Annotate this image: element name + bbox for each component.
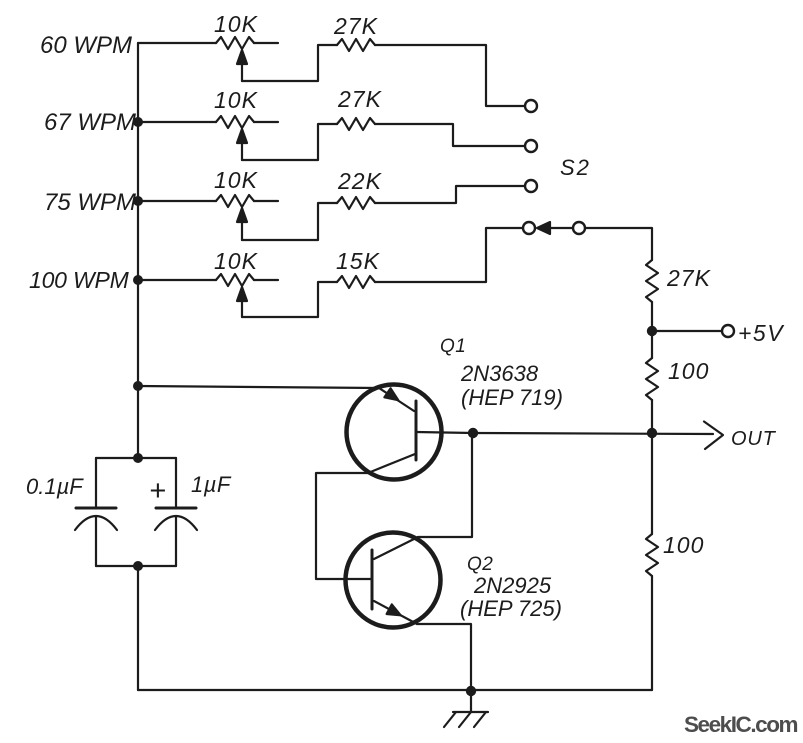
svg-text:100: 100: [663, 532, 704, 558]
switch S2 contact 4: [523, 222, 535, 234]
junction ground node: [466, 686, 476, 696]
wire +5V feed: [652, 330, 722, 332]
svg-text:60 WPM: 60 WPM: [40, 32, 132, 59]
svg-text:(HEP 725): (HEP 725): [460, 596, 562, 621]
potentiometer R1 10K body: [216, 37, 254, 49]
svg-text:10K: 10K: [214, 167, 259, 193]
wire row1 from bus: [138, 42, 216, 44]
wire capacitor top branch: [96, 457, 176, 459]
svg-text:+5V: +5V: [738, 320, 785, 346]
switch S2 wiper arm arrow: [537, 222, 550, 234]
wire wiper to rail: [585, 228, 652, 260]
wire left bus upper: [137, 43, 139, 458]
wire row3 wiper jog: [242, 203, 337, 240]
wire row2 wiper jog: [242, 124, 337, 160]
resistor 27K right body: [646, 260, 658, 302]
wire OUT line: [473, 433, 713, 434]
junction row4 bus: [133, 275, 143, 285]
resistor 100 lower body: [646, 534, 658, 576]
potentiometer R4 10K body: [216, 274, 254, 286]
wire row3 to contact: [375, 186, 525, 203]
wire capacitor bottom branch: [96, 565, 176, 567]
resistor 22K row3 body: [337, 197, 375, 209]
junction +5V node: [647, 326, 657, 336]
resistor 15K row4 body: [337, 276, 375, 288]
potentiometer R2 wiper arrow: [237, 129, 247, 143]
svg-text:S2: S2: [560, 155, 591, 180]
wire Q1 base lead: [416, 432, 473, 433]
transistor Q2: [346, 533, 441, 628]
svg-text:OUT: OUT: [731, 428, 777, 450]
wire left bus lower: [137, 566, 139, 690]
terminal +5V: [722, 325, 734, 337]
junction capacitor bottom: [133, 561, 143, 571]
resistor 27K row2 body: [337, 118, 375, 130]
svg-text:22K: 22K: [337, 168, 383, 194]
wire Q1 emitter lead: [138, 386, 379, 388]
ground: [470, 691, 472, 712]
potentiometer R3 wiper arrow: [237, 208, 247, 222]
wire row4 to contact: [375, 228, 523, 282]
resistor 100 upper body: [646, 358, 658, 400]
junction row2 bus: [133, 117, 143, 127]
wire row1 pot stub: [254, 42, 278, 44]
potentiometer R3 10K body: [216, 195, 254, 207]
svg-text:2N2925: 2N2925: [473, 573, 552, 598]
wire bottom rail: [138, 689, 652, 691]
wire row2 from bus: [138, 121, 216, 123]
svg-text:10K: 10K: [214, 87, 259, 113]
svg-text:Q1: Q1: [440, 336, 466, 357]
junction capacitor top: [133, 453, 143, 463]
wire Q2 collector to node: [418, 433, 472, 537]
switch S2 contact 1: [525, 100, 537, 112]
switch S2 contact 3: [525, 180, 537, 192]
transistor Q1: [347, 385, 442, 480]
capacitor C1 0.1uF: [95, 458, 97, 508]
junction OUT node: [647, 428, 657, 438]
svg-text:100 WPM: 100 WPM: [29, 267, 130, 293]
wire row2 to contact: [375, 124, 525, 146]
svg-text:0.1µF: 0.1µF: [26, 474, 84, 499]
svg-text:75 WPM: 75 WPM: [44, 189, 136, 216]
arrow OUT: [704, 422, 723, 450]
switch S2 contact 2: [525, 140, 537, 152]
svg-text:+: +: [149, 475, 166, 507]
svg-text:15K: 15K: [336, 248, 381, 274]
svg-text:Q2: Q2: [467, 554, 493, 575]
wire rail 27K to 100: [651, 302, 653, 358]
wire rail bottom: [651, 576, 653, 690]
svg-text:(HEP 719): (HEP 719): [461, 385, 563, 410]
resistor 27K row1 body: [337, 39, 375, 51]
wire row2 pot stub: [254, 121, 278, 123]
junction Q1 base node: [468, 428, 478, 438]
wire row4 from bus: [138, 279, 216, 281]
wire rail 100 to OUT: [651, 400, 653, 534]
svg-text:2N3638: 2N3638: [460, 361, 539, 386]
svg-text:27K: 27K: [666, 265, 712, 291]
junction row3 bus: [133, 196, 143, 206]
capacitor C2 1uF: [175, 458, 177, 508]
svg-text:SeekIC.com: SeekIC.com: [684, 712, 798, 737]
svg-text:10K: 10K: [214, 11, 259, 37]
potentiometer R1 wiper arrow: [237, 50, 247, 64]
switch S2 wiper terminal: [573, 222, 585, 234]
svg-text:100: 100: [668, 358, 709, 384]
wire row1 to contact: [375, 45, 525, 106]
wire row4 wiper jog: [242, 282, 337, 317]
svg-text:67 WPM: 67 WPM: [44, 109, 136, 136]
svg-text:1µF: 1µF: [191, 472, 232, 497]
svg-text:10K: 10K: [214, 248, 259, 274]
wire row1 wiper jog: [242, 45, 337, 81]
wire Q2 emitter to ground rail: [417, 624, 471, 691]
wire row4 pot stub: [254, 279, 278, 281]
potentiometer R2 10K body: [216, 116, 254, 128]
wire row3 pot stub: [254, 200, 278, 202]
wire Q1 collector to Q2 base: [316, 473, 372, 579]
junction Q1 emitter bus: [133, 381, 143, 391]
wire row3 from bus: [138, 200, 216, 202]
svg-text:27K: 27K: [333, 13, 379, 39]
potentiometer R4 wiper arrow: [237, 287, 247, 301]
svg-text:27K: 27K: [337, 86, 383, 112]
